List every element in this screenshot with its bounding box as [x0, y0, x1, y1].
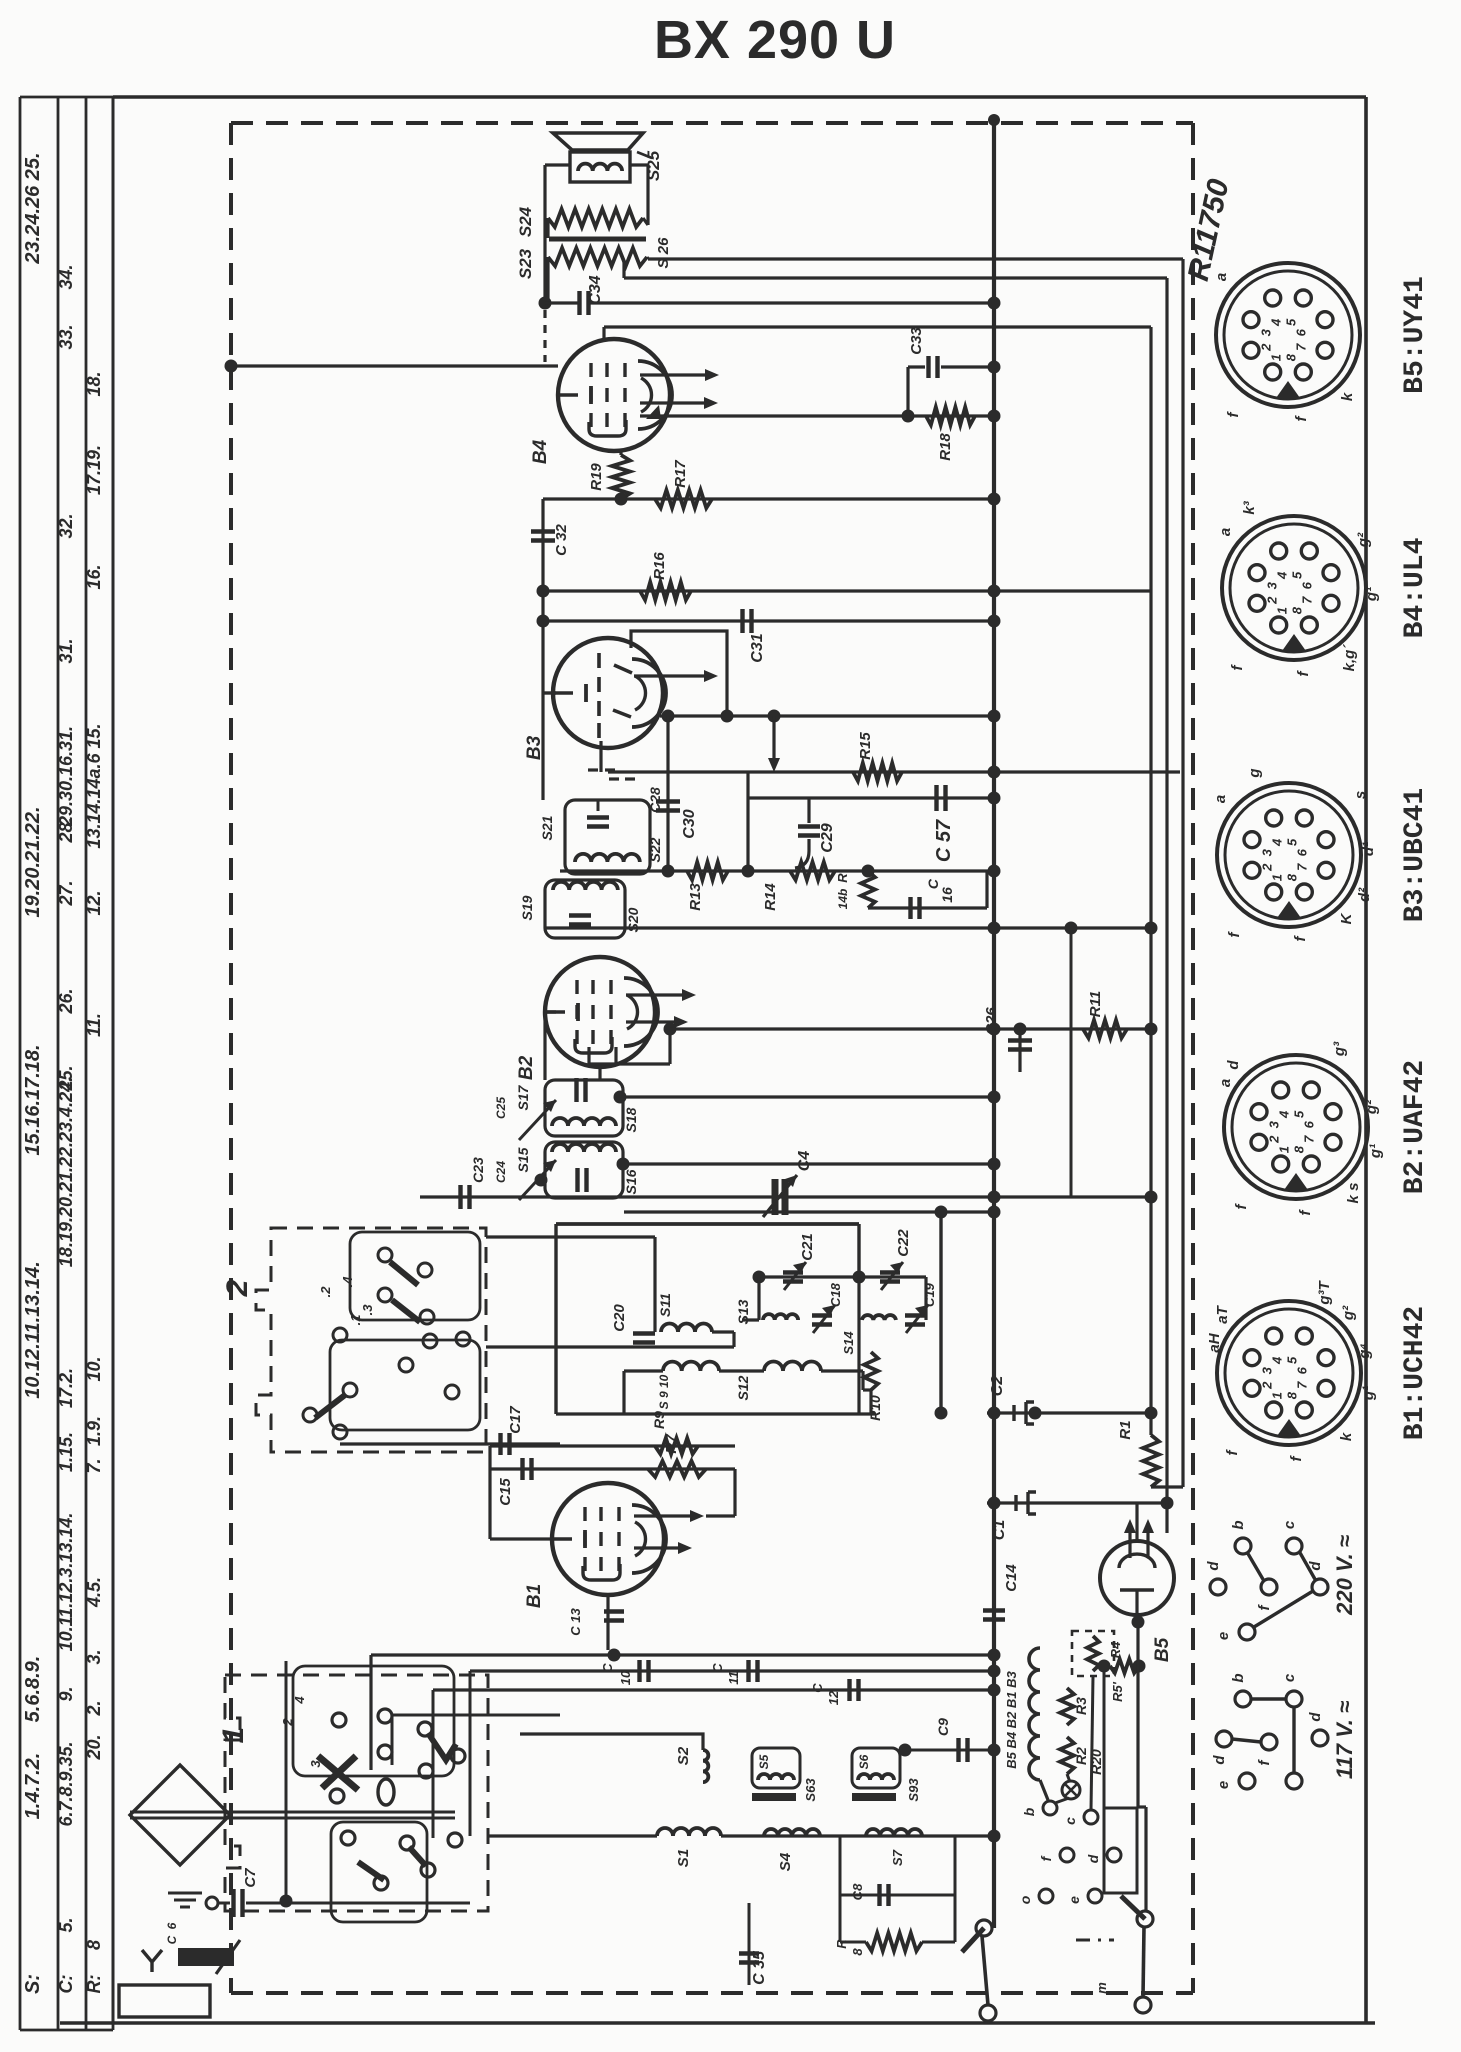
svg-text:6: 6: [1294, 328, 1309, 336]
svg-text:C26: C26: [983, 1007, 1000, 1035]
svg-text:S18: S18: [623, 1107, 639, 1132]
svg-text:C:: C:: [56, 1975, 76, 1994]
svg-text:R19: R19: [588, 463, 605, 491]
svg-text:S14: S14: [841, 1331, 856, 1355]
svg-text:d: d: [1307, 1712, 1324, 1722]
svg-text:C9: C9: [935, 1718, 951, 1736]
svg-text:3: 3: [1259, 848, 1274, 856]
svg-text:4: 4: [1270, 838, 1285, 847]
svg-text:5: 5: [1284, 1356, 1299, 1364]
svg-text:C25: C25: [494, 1097, 508, 1119]
svg-text:8: 8: [850, 1948, 865, 1956]
svg-text:BX 290 U: BX 290 U: [654, 10, 896, 70]
svg-text:1.4.7.2.: 1.4.7.2.: [22, 1753, 44, 1820]
svg-text:8: 8: [1284, 873, 1299, 881]
svg-text:C33: C33: [908, 327, 925, 355]
svg-text:18.: 18.: [84, 371, 104, 396]
svg-text:11.: 11.: [84, 1013, 104, 1037]
svg-text:a: a: [1212, 795, 1229, 803]
svg-text:3: 3: [1266, 1120, 1281, 1128]
svg-text:a: a: [1217, 528, 1234, 536]
svg-text:14b: 14b: [836, 889, 850, 910]
svg-text:C15: C15: [497, 1478, 514, 1506]
svg-text:R:: R:: [84, 1975, 104, 1994]
svg-text:c: c: [1062, 1817, 1078, 1825]
svg-text:aT: aT: [1214, 1304, 1231, 1323]
svg-text:C19: C19: [922, 1282, 937, 1307]
svg-text:34.: 34.: [56, 264, 76, 289]
svg-text:R1: R1: [1117, 1420, 1134, 1439]
svg-text:e: e: [1215, 1781, 1232, 1789]
svg-text:27.: 27.: [56, 880, 76, 906]
svg-text:S19: S19: [519, 895, 535, 920]
svg-text:B3: B3: [524, 735, 545, 760]
svg-text:7: 7: [1295, 863, 1310, 871]
svg-text:2: 2: [221, 1279, 254, 1297]
svg-text:18.19.20.21.22.23.4.24.: 18.19.20.21.22.23.4.24.: [56, 1077, 76, 1267]
svg-text:7: 7: [1295, 1381, 1310, 1389]
svg-text:4: 4: [1269, 318, 1284, 327]
svg-text:B2: B2: [516, 1055, 537, 1080]
svg-text:C30: C30: [681, 809, 698, 838]
svg-text:C 57: C 57: [933, 819, 955, 862]
svg-text:S6: S6: [857, 1754, 871, 1769]
svg-text:C23: C23: [470, 1157, 486, 1183]
svg-text:d: d: [1085, 1854, 1101, 1863]
svg-text:8: 8: [1283, 353, 1298, 361]
svg-text:b: b: [1230, 1673, 1247, 1682]
svg-text:B5:UY41: B5:UY41: [1400, 276, 1431, 394]
svg-text:2: 2: [1259, 863, 1274, 872]
svg-text:C14: C14: [1003, 1564, 1020, 1592]
svg-text:2.: 2.: [84, 1700, 104, 1716]
svg-text:25.: 25.: [56, 1065, 76, 1091]
svg-text:6: 6: [1295, 1366, 1310, 1374]
svg-text:5: 5: [1283, 318, 1298, 326]
svg-text:17.2.: 17.2.: [56, 1368, 76, 1408]
svg-text:6: 6: [1295, 848, 1310, 856]
svg-text:33.: 33.: [56, 324, 76, 349]
svg-text:6: 6: [165, 1922, 179, 1929]
svg-text:R16: R16: [651, 552, 668, 580]
svg-text:S1: S1: [675, 1849, 692, 1867]
svg-text:B4: B4: [530, 439, 551, 464]
svg-text:11: 11: [726, 1671, 741, 1685]
svg-text:C34: C34: [587, 275, 604, 304]
svg-text:17.19.: 17.19.: [84, 445, 104, 495]
svg-text:m: m: [1094, 1982, 1109, 1994]
svg-text:k,g´: k,g´: [1341, 644, 1358, 672]
svg-text:3: 3: [1258, 328, 1273, 336]
svg-text:8: 8: [1289, 606, 1304, 614]
svg-text:S:: S:: [22, 1974, 44, 1994]
svg-text:4: 4: [1270, 1356, 1285, 1365]
svg-text:4: 4: [292, 1696, 307, 1705]
svg-text:C17: C17: [507, 1406, 524, 1434]
svg-text:5.: 5.: [56, 1917, 76, 1932]
svg-text:R3: R3: [1073, 1697, 1089, 1715]
svg-text:C: C: [710, 1663, 725, 1673]
svg-text:.3: .3: [360, 1304, 375, 1316]
svg-text:7: 7: [1300, 596, 1315, 604]
svg-text:d²: d²: [1356, 887, 1373, 902]
svg-text:29.30.16.31.: 29.30.16.31.: [56, 726, 76, 827]
svg-text:8: 8: [1284, 1391, 1299, 1399]
svg-text:C: C: [600, 1663, 615, 1673]
svg-text:C28: C28: [647, 787, 663, 813]
svg-text:d: d: [1225, 1060, 1242, 1070]
svg-text:S13: S13: [735, 1299, 751, 1324]
svg-text:C 32: C 32: [553, 524, 570, 556]
svg-text:C4: C4: [796, 1151, 813, 1172]
svg-text:R: R: [835, 873, 850, 883]
svg-text:g⁴: g⁴: [1356, 1343, 1373, 1360]
svg-text:d: d: [1211, 1755, 1228, 1765]
svg-text:.2: .2: [318, 1286, 333, 1298]
svg-text:26.: 26.: [56, 988, 76, 1014]
svg-text:7: 7: [1302, 1135, 1317, 1143]
svg-text:R11: R11: [1087, 991, 1104, 1017]
svg-text:1.9.: 1.9.: [84, 1416, 104, 1446]
svg-text:S 9 10: S 9 10: [657, 1374, 671, 1409]
svg-text:5: 5: [1284, 838, 1299, 846]
svg-text:C31: C31: [749, 633, 766, 662]
svg-text:B4:UL4: B4:UL4: [1400, 538, 1431, 639]
svg-text:5.6.8.9.: 5.6.8.9.: [22, 1656, 44, 1723]
svg-text:C29: C29: [819, 823, 836, 852]
svg-text:o: o: [1017, 1895, 1033, 1904]
svg-text:8: 8: [84, 1940, 104, 1950]
svg-text:5: 5: [1289, 571, 1304, 579]
svg-text:2: 2: [280, 1718, 295, 1727]
svg-text:S12: S12: [735, 1375, 751, 1400]
svg-text:13.14.14a.6 15.: 13.14.14a.6 15.: [84, 723, 104, 848]
svg-text:220 V. ≈: 220 V. ≈: [1332, 1535, 1357, 1616]
svg-text:d: d: [1205, 1561, 1222, 1571]
svg-text:4.5.: 4.5.: [84, 1577, 104, 1608]
svg-text:C20: C20: [611, 1304, 628, 1332]
svg-text:R4: R4: [1108, 1641, 1123, 1658]
svg-text:C18: C18: [828, 1282, 843, 1307]
svg-text:R9: R9: [651, 1411, 667, 1429]
svg-text:a: a: [1213, 273, 1230, 281]
svg-text:9.: 9.: [56, 1686, 76, 1701]
svg-text:B5: B5: [1152, 1637, 1173, 1662]
svg-text:R14: R14: [762, 883, 779, 911]
svg-text:C21: C21: [799, 1233, 816, 1261]
svg-text:6: 6: [1302, 1120, 1317, 1128]
svg-text:d¹: d¹: [1360, 842, 1377, 856]
svg-text:7: 7: [1294, 343, 1309, 351]
svg-text:R18: R18: [937, 433, 954, 461]
svg-text:S7: S7: [890, 1849, 905, 1866]
svg-text:a: a: [1217, 1079, 1234, 1087]
svg-text:1: 1: [1275, 607, 1290, 614]
svg-text:.4: .4: [340, 1276, 355, 1288]
svg-text:C: C: [810, 1683, 825, 1693]
svg-text:15.16.17.18.: 15.16.17.18.: [22, 1044, 44, 1155]
svg-text:10: 10: [618, 1670, 633, 1685]
svg-text:C: C: [165, 1935, 179, 1944]
svg-text:19.20.21.22.: 19.20.21.22.: [22, 806, 44, 917]
svg-text:R13: R13: [687, 883, 704, 911]
svg-text:e: e: [1215, 1632, 1232, 1640]
svg-text:1.15.: 1.15.: [56, 1432, 76, 1472]
svg-text:10.11.12.3.13.14.: 10.11.12.3.13.14.: [56, 1513, 76, 1652]
svg-text:k: k: [1338, 1432, 1355, 1441]
svg-text:6.7.8.9.35.: 6.7.8.9.35.: [56, 1741, 76, 1826]
svg-text:k³: k³: [1241, 500, 1258, 514]
svg-text:B2:UAF42: B2:UAF42: [1400, 1060, 1431, 1194]
svg-text:g¹: g¹: [1360, 1386, 1377, 1401]
svg-text:S17: S17: [515, 1084, 531, 1110]
svg-text:1: 1: [1270, 874, 1285, 881]
svg-text:2: 2: [1258, 343, 1273, 352]
svg-text:g²: g²: [1340, 1305, 1357, 1321]
svg-text:23.24.26 25.: 23.24.26 25.: [22, 152, 44, 264]
svg-text:S93: S93: [906, 1778, 921, 1802]
svg-text:b: b: [1230, 1520, 1247, 1529]
svg-text:2: 2: [1264, 596, 1279, 605]
svg-text:R15: R15: [857, 732, 874, 760]
svg-text:K: K: [1338, 912, 1355, 924]
svg-text:10.12.11.13.14.: 10.12.11.13.14.: [22, 1261, 44, 1399]
svg-text:10.: 10.: [84, 1356, 104, 1381]
svg-text:g³: g³: [1331, 1041, 1348, 1057]
svg-text:S23: S23: [516, 248, 535, 279]
svg-text:1: 1: [1270, 1392, 1285, 1399]
svg-text:7.: 7.: [84, 1458, 104, 1473]
svg-text:C22: C22: [895, 1229, 912, 1257]
svg-text:3.: 3.: [84, 1649, 104, 1664]
svg-text:c: c: [1281, 1520, 1298, 1529]
svg-text:R17: R17: [672, 460, 689, 488]
svg-text:C8: C8: [850, 1883, 865, 1900]
svg-text:6: 6: [1300, 581, 1315, 589]
svg-text:R5': R5': [1110, 1681, 1125, 1702]
svg-text:S24: S24: [516, 206, 535, 237]
svg-text:2: 2: [1266, 1135, 1281, 1144]
svg-text:S2: S2: [675, 1746, 692, 1765]
svg-text:R7: R7: [663, 1434, 680, 1454]
svg-text:c: c: [1281, 1673, 1298, 1682]
svg-text:S11: S11: [657, 1293, 673, 1317]
svg-text:g¹: g¹: [1363, 587, 1380, 602]
svg-text:C1: C1: [991, 1520, 1008, 1541]
svg-text:B1:UCH42: B1:UCH42: [1400, 1306, 1431, 1440]
svg-text:S5: S5: [757, 1754, 771, 1769]
svg-text:S 26: S 26: [655, 237, 672, 269]
svg-text:e: e: [1066, 1896, 1082, 1904]
svg-text:d: d: [1307, 1561, 1324, 1571]
svg-text:16: 16: [939, 887, 955, 903]
svg-text:C7: C7: [242, 1868, 259, 1888]
svg-text:12: 12: [826, 1690, 841, 1705]
svg-text:B1: B1: [524, 1584, 545, 1608]
svg-text:2: 2: [1259, 1381, 1274, 1390]
svg-text:s: s: [1352, 791, 1369, 799]
svg-text:4: 4: [1277, 1110, 1292, 1119]
svg-text:S15: S15: [515, 1147, 531, 1172]
svg-text:g²: g²: [1363, 1099, 1380, 1115]
svg-text:B5 B4 B2 B1 B3: B5 B4 B2 B1 B3: [1004, 1670, 1019, 1768]
svg-text:117 V. ≈: 117 V. ≈: [1332, 1701, 1357, 1779]
svg-text:S16: S16: [623, 1169, 639, 1194]
svg-text:k: k: [1339, 392, 1356, 401]
svg-text:31.: 31.: [56, 638, 76, 663]
svg-text:1: 1: [1269, 354, 1284, 361]
svg-text:1: 1: [217, 1727, 250, 1744]
svg-text:32.: 32.: [56, 513, 76, 538]
svg-text:16.: 16.: [84, 564, 104, 589]
svg-text:1: 1: [1277, 1146, 1292, 1153]
svg-text:C 35: C 35: [751, 1950, 768, 1985]
svg-text:B3:UBC41: B3:UBC41: [1400, 788, 1431, 922]
svg-text:aH: aH: [1206, 1332, 1223, 1352]
svg-text:S22: S22: [647, 837, 663, 862]
svg-text:R2: R2: [1073, 1747, 1089, 1765]
svg-text:g²: g²: [1355, 532, 1372, 548]
svg-text:3: 3: [308, 1760, 323, 1768]
svg-text:C24: C24: [494, 1161, 508, 1183]
svg-text:S21: S21: [539, 815, 555, 840]
svg-text:20.: 20.: [84, 1734, 104, 1760]
svg-text:g³T: g³T: [1316, 1280, 1333, 1306]
svg-text:k s: k s: [1345, 1183, 1362, 1204]
svg-text:C2: C2: [989, 1376, 1006, 1397]
svg-text:g¹: g¹: [1367, 1144, 1384, 1159]
svg-text:S63: S63: [803, 1778, 818, 1802]
svg-text:b: b: [1021, 1807, 1037, 1816]
svg-text:g: g: [1246, 768, 1263, 778]
svg-text:S4: S4: [777, 1852, 794, 1871]
svg-text:4: 4: [1275, 571, 1290, 580]
svg-text:3: 3: [1264, 581, 1279, 589]
svg-text:3: 3: [1259, 1366, 1274, 1374]
svg-text:8: 8: [1291, 1145, 1306, 1153]
svg-text:C 13: C 13: [568, 1608, 583, 1636]
svg-text:5: 5: [1291, 1110, 1306, 1118]
svg-text:12.: 12.: [84, 890, 104, 915]
